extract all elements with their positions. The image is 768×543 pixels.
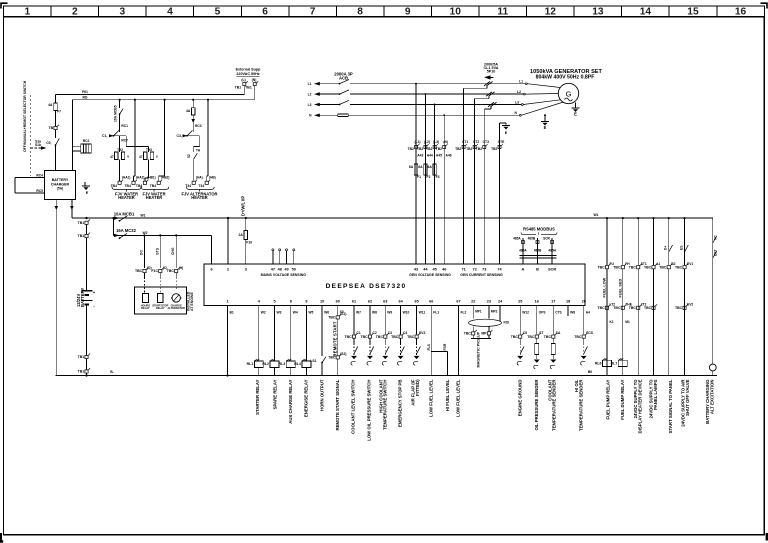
svg-text:FITTED): FITTED) (415, 379, 420, 396)
digital input column C1 (353, 306, 355, 335)
svg-text:485B: 485B (528, 237, 536, 241)
svg-text:A43: A43 (417, 154, 423, 158)
svg-text:L1: L1 (519, 80, 523, 84)
right column3 lower (637, 269, 639, 376)
svg-text:RL4: RL4 (294, 362, 301, 366)
svg-text:ENGINE GROUND: ENGINE GROUND (517, 380, 522, 417)
svg-text:13: 13 (592, 7, 604, 18)
svg-text:TBC: TBC (675, 265, 683, 269)
svg-text:RL2: RL2 (262, 362, 269, 366)
battery negative wire (86, 304, 88, 355)
svg-text:LOW FUEL LEVEL: LOW FUEL LEVEL (456, 379, 461, 417)
svg-text:TB1: TB1 (78, 355, 85, 359)
svg-text:16: 16 (535, 299, 539, 303)
svg-text:AT ENGINE: AT ENGINE (190, 292, 194, 311)
svg-text:MP1: MP1 (475, 310, 482, 314)
svg-text:6A: 6A (418, 165, 423, 169)
magnetic pickup body (472, 335, 474, 339)
svg-text:ALTERNATOR: ALTERNATOR (167, 306, 185, 310)
svg-text:B-: B- (110, 370, 114, 374)
controller U1 DEEPSEA DSE7320 (204, 264, 585, 306)
svg-text:CTE: CTE (498, 140, 505, 144)
svg-text:W8: W8 (372, 311, 377, 315)
svg-text:485H: 485H (548, 249, 556, 253)
column pin18 stub (567, 306, 569, 317)
svg-text:MAGNETIC PICKUP: MAGNETIC PICKUP (477, 331, 481, 367)
bus line N (316, 114, 338, 116)
corner mark bottom-left (1, 533, 3, 542)
generator lead N (519, 114, 521, 116)
charger earth E (84, 182, 86, 186)
svg-text:25: 25 (518, 299, 522, 303)
fuse F3 6A (433, 164, 436, 175)
svg-text:62: 62 (368, 299, 372, 303)
svg-text:485A: 485A (513, 237, 521, 241)
svg-text:M1: M1 (625, 320, 630, 324)
sender column ST (536, 306, 538, 335)
input switch C3 (384, 343, 386, 355)
svg-text:A44: A44 (427, 154, 433, 158)
suppressor box (81, 144, 92, 153)
svg-text:A46: A46 (446, 154, 452, 158)
svg-text:TH: TH (196, 149, 201, 153)
relay RL7 fuel dump (618, 360, 627, 366)
svg-text:RELAY: RELAY (141, 306, 150, 310)
svg-text:LOW OIL PRESSURE SWITCH: LOW OIL PRESSURE SWITCH (367, 380, 372, 441)
svg-text:1: 1 (226, 299, 228, 303)
svg-text:W6: W6 (324, 311, 329, 315)
heater2 bracket (141, 187, 168, 192)
gen voltage tap wire L2 (424, 94, 426, 264)
svg-text:63: 63 (383, 299, 387, 303)
CT2 secondary wire (488, 96, 490, 98)
svg-text:TBC: TBC (391, 335, 399, 339)
svg-text:COOLANT LEVEL SWITCH: COOLANT LEVEL SWITCH (351, 380, 356, 434)
svg-text:18: 18 (566, 299, 570, 303)
svg-text:TBC: TBC (376, 335, 384, 339)
svg-text:TB4: TB4 (124, 184, 131, 188)
svg-text:(L2): (L2) (424, 140, 430, 144)
svg-text:RD: RD (83, 96, 88, 100)
terminal TB2 CT 2 (473, 146, 476, 149)
ACB pole L2 (339, 93, 341, 95)
generator lead L3 (521, 104, 523, 106)
svg-text:F61: F61 (82, 90, 88, 94)
svg-text:(HB): (HB) (209, 176, 216, 180)
svg-text:HEATER: HEATER (191, 195, 208, 200)
svg-text:TB1: TB1 (245, 86, 252, 90)
terminal TB4 heater2 N (157, 181, 160, 184)
relay RL2 (270, 361, 279, 367)
svg-text:ALT EXCITATION: ALT EXCITATION (709, 380, 714, 415)
sender resistor SA (551, 344, 555, 355)
svg-text:F28: F28 (504, 321, 510, 325)
magnetic pickup screen ellipse (469, 319, 502, 326)
hours counter relay (142, 293, 148, 302)
svg-text:CTS: CTS (555, 311, 561, 315)
CT common wire (499, 123, 501, 264)
drop wire D1 (143, 234, 145, 236)
terminal TB2 CT 4 (498, 146, 501, 149)
svg-text:ENERGISE RELAY: ENERGISE RELAY (304, 379, 309, 417)
svg-text:TB1: TB1 (78, 370, 85, 374)
svg-text:9: 9 (305, 299, 307, 303)
generator lead L1 (525, 83, 527, 85)
CT1 on L1 (484, 82, 490, 86)
svg-text:TBC: TBC (644, 265, 652, 269)
svg-text:REMOTE START SIGNAL: REMOTE START SIGNAL (335, 379, 340, 430)
gen voltage tap wire L3 (434, 105, 436, 265)
terminal TBC pin20 (582, 335, 585, 338)
svg-text:6A: 6A (427, 165, 432, 169)
magnetic pickup wires (472, 306, 474, 319)
svg-text:B: B (536, 268, 539, 272)
terminal row2 FUEL SED (621, 306, 624, 309)
right column wire 2 (622, 217, 624, 219)
svg-text:External Supp: External Supp (236, 68, 262, 72)
terminal TB1 battery negative (85, 355, 88, 358)
svg-text:TBC: TBC (574, 335, 582, 339)
svg-text:HI FUEL LEVEL: HI FUEL LEVEL (445, 379, 450, 411)
svg-text:FSR: FSR (443, 343, 447, 350)
relay RL1 (254, 361, 263, 367)
svg-text:TB2: TB2 (408, 147, 414, 151)
svg-text:TBC: TBC (328, 356, 336, 360)
input switch C1 (353, 343, 355, 355)
fuse F1 6A (414, 164, 417, 175)
heater3 jog (199, 136, 201, 147)
terminal TB2 sensing 2 (424, 146, 427, 149)
terminal TBC remote start bottom (336, 356, 339, 359)
svg-text:TBC: TBC (675, 306, 683, 310)
svg-text:23: 23 (487, 299, 491, 303)
terminal TB1 battery positive 2 (85, 234, 88, 237)
svg-text:52: 52 (187, 154, 191, 158)
svg-text:W8: W8 (570, 311, 575, 315)
svg-text:L3: L3 (308, 103, 312, 107)
terminal TB4 heater3 L (192, 181, 195, 184)
svg-text:AUX CHARGE RELAY: AUX CHARGE RELAY (288, 379, 293, 423)
svg-text:MAINS VOLTAGE SENSING: MAINS VOLTAGE SENSING (261, 273, 307, 277)
svg-text:A45: A45 (436, 154, 442, 158)
svg-text:TH3: TH3 (146, 148, 152, 152)
svg-text:SCR: SCR (548, 268, 556, 272)
riser pin3 fused (245, 217, 247, 219)
svg-text:DEEPSEA DSE7320: DEEPSEA DSE7320 (326, 283, 407, 290)
selector switch dashed link (30, 95, 32, 176)
right column wire 5 (668, 217, 670, 219)
sender resistor ST (535, 344, 539, 355)
svg-text:TBC: TBC (135, 269, 143, 273)
heater3 bracket (187, 187, 215, 192)
svg-text:TBC: TBC (629, 265, 637, 269)
svg-text:OPS: OPS (539, 311, 546, 315)
svg-text:4: 4 (167, 7, 173, 18)
terminal TBC input C1 (352, 335, 355, 338)
terminal row2 col6 (683, 306, 686, 309)
fuse F2 6A (424, 164, 427, 175)
svg-text:TB2: TB2 (491, 147, 497, 151)
svg-text:14: 14 (640, 7, 652, 18)
corner mark top-left (1, 3, 8, 8)
fuse F7 4A (55, 94, 57, 103)
svg-text:SPARE RELAY: SPARE RELAY (272, 379, 277, 409)
right column wire 4 (652, 217, 654, 219)
contact TBC D1 (143, 269, 146, 272)
sender ground SA (550, 360, 556, 363)
svg-text:TBC: TBC (613, 306, 621, 310)
breaker 16A MC32 (113, 218, 115, 235)
wire pin8 output (290, 306, 292, 361)
svg-text:67: 67 (456, 299, 460, 303)
svg-text:TB2: TB2 (436, 147, 442, 151)
svg-text:485A: 485A (519, 249, 527, 253)
svg-text:F10: F10 (246, 241, 252, 245)
fuel sender jog 66-67 (431, 351, 447, 353)
bus line L3 (316, 104, 339, 106)
svg-text:TBC: TBC (544, 335, 552, 339)
svg-text:73: 73 (482, 268, 486, 272)
svg-text:W1: W1 (594, 213, 599, 217)
svg-text:TB2: TB2 (476, 147, 482, 151)
feeder arrow L3 (314, 103, 320, 107)
svg-text:T34: T34 (198, 184, 204, 188)
svg-text:48: 48 (278, 268, 282, 272)
terminal TB1 battery negative 2 (85, 370, 88, 373)
svg-text:HORN OUTPUT: HORN OUTPUT (319, 379, 324, 411)
svg-text:10: 10 (320, 299, 324, 303)
terminal TBC input EV3 (415, 335, 418, 338)
svg-text:47: 47 (271, 268, 275, 272)
right column wire 1 (606, 217, 608, 219)
heater3 neutral wire (207, 99, 209, 101)
input switch C2 (369, 343, 371, 355)
pre-contact EV on column5 (668, 218, 670, 240)
generator lead L2 (523, 93, 525, 95)
svg-text:RC1: RC1 (121, 124, 128, 128)
svg-text:(S1): (S1) (340, 312, 346, 316)
digital input column C5 (519, 306, 521, 335)
svg-text:TBC: TBC (597, 306, 605, 310)
terminal TB4 heater1 L (118, 181, 121, 184)
svg-text:61: 61 (352, 299, 356, 303)
svg-text:C3,: C3, (177, 134, 182, 138)
svg-text:S1b: S1b (35, 143, 41, 147)
svg-text:7: 7 (310, 7, 316, 18)
svg-text:(5A): (5A) (57, 187, 63, 191)
svg-text:START SIGNAL TO PANEL: START SIGNAL TO PANEL (668, 379, 673, 433)
svg-text:9: 9 (405, 7, 411, 18)
digital input column C2 (369, 306, 371, 335)
input ground C2 (367, 356, 373, 359)
battery charger A1 (44, 171, 75, 200)
svg-text:8: 8 (357, 7, 363, 18)
svg-text:FUEL PUMP RELAY: FUEL PUMP RELAY (605, 379, 610, 419)
svg-text:10A MCB1: 10A MCB1 (114, 211, 135, 216)
svg-text:TB2: TB2 (426, 147, 432, 151)
junction pin1 rail (226, 374, 228, 376)
svg-text:LS1: LS1 (310, 359, 316, 363)
svg-text:TBC: TBC (629, 306, 637, 310)
right column terminal row1 B2 (667, 266, 670, 269)
heater1 bracket (112, 187, 141, 192)
right column terminal row1 A1 (652, 266, 655, 269)
svg-text:L1: L1 (308, 82, 312, 86)
relay RL3 (286, 361, 295, 367)
junction dot MC32 branch (112, 217, 114, 219)
svg-text:4A: 4A (186, 109, 191, 113)
svg-text:50: 50 (292, 268, 296, 272)
bus line L1 (316, 83, 339, 85)
svg-text:OFF/MANUAL+REMOT SELECTOR SWIT: OFF/MANUAL+REMOT SELECTOR SWITCH (23, 80, 27, 152)
svg-text:GTS: GTS (155, 247, 159, 255)
svg-text:TBC: TBC (407, 335, 415, 339)
svg-text:RC5: RC5 (36, 189, 43, 193)
magnetic pickup terminal 1 (472, 326, 474, 331)
svg-text:43: 43 (414, 268, 418, 272)
svg-text:C1,: C1, (102, 134, 107, 138)
battery positive wire (86, 224, 88, 234)
right column terminal row1 EV1 (683, 266, 686, 269)
wire fuse to terminal (55, 111, 57, 127)
svg-text:D+/W/L I/P: D+/W/L I/P (241, 196, 246, 216)
svg-text:TBC: TBC (328, 316, 336, 320)
feeder arrow N (314, 114, 320, 118)
neutral earth (544, 115, 546, 121)
svg-text:HEATER: HEATER (118, 195, 135, 200)
heater1 thermostat TH2 (119, 136, 121, 152)
svg-text:(L1): (L1) (414, 140, 420, 144)
charge gauge (172, 294, 180, 302)
svg-text:(HA2): (HA2) (136, 176, 144, 180)
svg-text:F1C: F1C (151, 269, 158, 273)
modbus terminal SCR (551, 238, 553, 264)
svg-text:TB1: TB1 (78, 234, 85, 238)
remote start column (337, 306, 339, 316)
svg-text:TB4: TB4 (150, 184, 157, 188)
svg-text:2: 2 (72, 7, 78, 18)
svg-text:W7: W7 (356, 311, 361, 315)
right column5 lower (668, 269, 670, 376)
svg-text:CHG: CHG (171, 247, 175, 255)
svg-text:TB1: TB1 (235, 86, 242, 90)
mains sensing stubs pins 47-50 (272, 251, 274, 264)
svg-text:RC2: RC2 (83, 139, 90, 143)
terminal row2 col4 (652, 306, 655, 309)
svg-text:22: 22 (471, 299, 475, 303)
svg-text:(N): (N) (443, 140, 448, 144)
terminal TB1 charger feed (54, 126, 57, 129)
svg-text:(HB2): (HB2) (161, 176, 169, 180)
svg-text:F1: F1 (417, 175, 421, 179)
svg-text:K1: K1 (610, 320, 614, 324)
svg-text:TBC: TBC (344, 335, 352, 339)
right column wire 3 (637, 217, 639, 219)
svg-text:(N): (N) (252, 78, 257, 82)
svg-text:TBC: TBC (527, 335, 535, 339)
ruler strip (4, 6, 765, 17)
svg-text:RELAY: RELAY (156, 306, 165, 310)
svg-text:ACB: ACB (339, 75, 348, 80)
CT1 secondary wire (486, 86, 488, 88)
svg-text:72: 72 (472, 268, 476, 272)
terminal TBC input C3 (384, 335, 387, 338)
svg-text:6: 6 (210, 268, 212, 272)
svg-text:RL3: RL3 (279, 362, 286, 366)
selector changeover loop (15, 177, 44, 179)
svg-text:PANEL LAMPS: PANEL LAMPS (653, 379, 658, 410)
corner mark bottom-right (766, 533, 768, 541)
svg-text:804kW 400V 50Hz 0.8PF: 804kW 400V 50Hz 0.8PF (536, 75, 595, 81)
svg-text:5P10: 5P10 (487, 70, 496, 74)
svg-text:TH2: TH2 (117, 148, 123, 152)
svg-text:W2: W2 (143, 231, 148, 235)
CT2 on L2 (486, 92, 492, 96)
svg-text:CT2: CT2 (473, 140, 479, 144)
riser pin2 +VE (227, 217, 229, 219)
sender column SA (552, 306, 554, 335)
input ground C4 (398, 356, 404, 359)
0V negative rail (56, 375, 718, 377)
CT3 secondary wire (490, 107, 492, 109)
svg-text:47: 47 (110, 155, 114, 159)
svg-text:OIL PRESSURE SENDER: OIL PRESSURE SENDER (534, 379, 539, 431)
svg-text:RC4: RC4 (36, 174, 43, 178)
modbus cable screen (520, 255, 557, 257)
digital input column EV3 (416, 306, 418, 335)
svg-text:EMERGENCY STOP PB: EMERGENCY STOP PB (398, 380, 403, 428)
svg-text:CT3: CT3 (483, 140, 489, 144)
svg-text:66: 66 (429, 299, 433, 303)
svg-text:10: 10 (450, 7, 462, 18)
terminal TB4 heater2 L (143, 181, 146, 184)
svg-text:6: 6 (262, 7, 268, 18)
svg-text:2: 2 (227, 268, 229, 272)
terminal TBC input C2 (368, 335, 371, 338)
svg-text:16A MCB5: 16A MCB5 (114, 105, 118, 122)
terminal TB2 sensing 1 (415, 146, 418, 149)
heater2 thermostat TH3 (144, 152, 147, 160)
svg-text:6A: 6A (409, 165, 414, 169)
start stop relay (157, 293, 163, 302)
svg-text:FUEL SED: FUEL SED (618, 279, 622, 298)
svg-text:W11: W11 (419, 311, 426, 315)
right end riser (712, 218, 714, 364)
heater2 neutral wire (164, 99, 166, 101)
svg-text:16A MC32: 16A MC32 (116, 228, 137, 233)
terminal TBC input C4 (399, 335, 402, 338)
svg-text:(H): (H) (179, 266, 184, 270)
terminal TB1 battery positive (85, 217, 87, 219)
digital input column C4 (400, 306, 402, 335)
svg-text:20: 20 (582, 299, 586, 303)
svg-text:3: 3 (120, 7, 126, 18)
ground pin20 (581, 356, 587, 359)
ACB pole L1 (339, 83, 341, 85)
svg-text:65: 65 (414, 299, 418, 303)
svg-text:F3: F3 (436, 175, 440, 179)
svg-text:REMOTE START: REMOTE START (332, 321, 337, 356)
wire pin10 output (321, 306, 323, 357)
input switch EV3 (416, 343, 418, 355)
terminal TB2 sensing 4 (443, 146, 446, 149)
terminal TBC input C5 (519, 335, 522, 338)
corner mark top-right (761, 3, 768, 8)
svg-text:2A: 2A (238, 233, 243, 237)
svg-text:TB4: TB4 (111, 184, 118, 188)
heater2 feed jumper (125, 136, 127, 147)
svg-text:W2: W2 (261, 311, 266, 315)
